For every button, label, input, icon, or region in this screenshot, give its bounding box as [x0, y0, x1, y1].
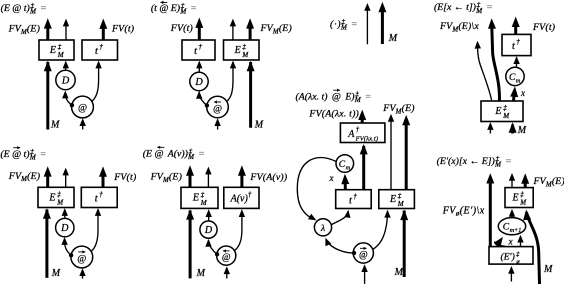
wire @ to E box d7	[372, 210, 390, 250]
circle @arrowright d5	[71, 246, 93, 268]
output arrow FV(t) thick d1	[99, 19, 107, 40]
svg-text:@: @	[222, 253, 231, 263]
label M d1	[50, 120, 60, 131]
output arrow FV_M(E) thick d2	[246, 18, 254, 40]
label M d5	[51, 268, 61, 279]
output arrow FV_M(E) thick d7	[402, 115, 410, 190]
svg-text:M: M	[517, 125, 527, 136]
input arrow into @ d7	[361, 264, 367, 284]
svg-text:E: E	[389, 194, 396, 205]
wire D to E box d6	[206, 209, 212, 221]
svg-text:E: E	[49, 45, 56, 56]
svg-text:FVM​(E)\x: FVM​(E)\x	[439, 21, 479, 33]
svg-text:M: M	[196, 268, 206, 279]
svg-text:FV(t): FV(t)	[532, 22, 555, 33]
svg-text:M: M	[394, 267, 404, 278]
svg-text:†: †	[99, 191, 103, 199]
junction dot and wire @ to D d6	[205, 239, 219, 257]
label FV(t) d4	[532, 22, 555, 33]
output arrow thin d6	[205, 167, 211, 188]
circle @ d1	[72, 96, 94, 118]
svg-text:†: †	[353, 192, 357, 200]
svg-text:‡: ‡	[503, 104, 507, 112]
input arrow into @ d2	[214, 118, 220, 129]
output arrow thin d2	[230, 19, 236, 40]
box A†FV(lambda x.t) d7	[340, 123, 385, 143]
svg-text:M: M	[502, 112, 510, 120]
svg-text:x: x	[508, 237, 514, 247]
label x d7	[329, 173, 334, 183]
svg-text:FV(t): FV(t)	[111, 23, 134, 34]
label M d2	[254, 120, 264, 131]
circle D d5	[56, 218, 74, 236]
svg-text:λ: λ	[320, 223, 325, 234]
svg-text:‡: ‡	[57, 190, 61, 198]
heading label (dot)ddagM =	[330, 18, 357, 32]
label FV(A(v)) d6	[249, 172, 287, 183]
output arrow FV_M(E) thick d1	[44, 18, 52, 40]
output arrow thin d1	[63, 19, 69, 40]
svg-text:D: D	[60, 223, 69, 234]
svg-text:‡: ‡	[242, 43, 246, 51]
heading label (E-prime(x)[x <- E])ddagM =	[437, 155, 512, 169]
svg-text:M: M	[388, 33, 398, 44]
wire thick S-curve FV_M(E)-x output d4	[488, 18, 499, 101]
label FV_M(E) d7	[382, 103, 414, 115]
label FV_M(E) d5	[8, 171, 40, 183]
circle D d2	[190, 72, 208, 90]
box (E-prime)‡oslash d8	[489, 247, 533, 266]
svg-text:M: M	[254, 120, 264, 131]
svg-text:(E[x ← t])‡M =: (E[x ← t])‡M =	[434, 1, 493, 15]
output arrow FV_M(E) thick d5	[44, 166, 52, 187]
junction dot and wire @ to D d2	[196, 91, 209, 108]
label FV_oslash(E-prime) minus x d8	[442, 205, 485, 217]
svg-text:M: M	[241, 51, 249, 59]
output arrow FV_M(E) thick d8	[521, 173, 529, 187]
svg-text:(E @ A(v))‡M =: (E @ A(v))‡M =	[143, 148, 205, 162]
svg-text:(E @ t)‡M =: (E @ t)‡M =	[1, 2, 47, 16]
wire x thick hook into Cm+1 d8	[494, 237, 505, 248]
label FV(A(lambda x. t)) d7	[308, 109, 359, 120]
svg-text:‡: ‡	[398, 192, 402, 200]
svg-text:†: †	[516, 38, 520, 46]
label FV_M(E) d6	[150, 172, 182, 184]
wire M curve into E box d8	[523, 210, 539, 284]
input arrow into @ d1	[80, 118, 86, 129]
svg-text:†: †	[198, 43, 202, 51]
svg-text:(E′): (E′)	[501, 252, 515, 263]
label FV_M(E) d2	[260, 23, 292, 35]
svg-text:M: M	[50, 120, 60, 131]
output arrow FV(t) thick d2	[195, 18, 203, 40]
label FV_M(E) minus x d4	[439, 21, 479, 33]
svg-text:@: @	[359, 250, 368, 260]
output arrow thin d5	[63, 168, 69, 188]
label x d4	[520, 88, 525, 98]
wire x thick t box to Cm d7	[341, 174, 349, 190]
label FV(t) d2	[170, 23, 193, 34]
wire M into E box d7	[400, 210, 408, 277]
heading label (E[x <- t])ddagM =	[434, 1, 493, 15]
svg-text:E: E	[192, 193, 199, 204]
box E‡M d7	[379, 190, 415, 209]
svg-text:‡: ‡	[520, 191, 524, 199]
wire M into E box d1	[44, 61, 52, 130]
output arrow FV_M(E) thick d6	[186, 165, 194, 187]
output arrow FV(A(v)) thick d6	[238, 165, 246, 187]
label FV_M(E) d8	[533, 176, 564, 188]
svg-text:(t @ E)‡M =: (t @ E)‡M =	[151, 2, 197, 16]
label M d4	[517, 125, 527, 136]
svg-text:E: E	[48, 192, 55, 203]
label FV(t) d1	[111, 23, 134, 34]
svg-text:M: M	[543, 264, 553, 275]
wire @ to A box d6	[234, 209, 245, 250]
wire lambda to t box d7	[332, 210, 351, 225]
svg-text:E: E	[512, 193, 519, 204]
output arrow FV(A) thick d7	[358, 110, 366, 123]
heading label (A(lambda x. t) @arrowright E)ddagM =	[296, 89, 372, 104]
label M d3	[388, 33, 398, 44]
svg-text:FV(A(λx. t)): FV(A(λx. t))	[308, 109, 359, 120]
input arrow into E-prime box d8	[508, 266, 514, 282]
svg-text:†: †	[99, 43, 103, 51]
wire @ to t box d1	[92, 61, 102, 102]
wire tall thick FV(E-prime) output d8	[486, 173, 494, 247]
heading label (E @arrowright t)ddagM =	[0, 146, 46, 162]
input arrow M into E box d4	[509, 122, 517, 133]
svg-text:M: M	[57, 51, 65, 59]
svg-text:@: @	[78, 103, 87, 114]
box E‡M d5	[38, 187, 74, 207]
wire D to t box d2	[196, 61, 202, 73]
svg-text:( · )‡M =: ( · )‡M =	[330, 18, 357, 32]
input arrow thin into E box d4	[487, 122, 493, 133]
svg-text:D: D	[194, 77, 203, 88]
circle Cm d7	[336, 155, 354, 173]
wire @ to E box d2	[227, 61, 237, 102]
box E‡M d6	[181, 187, 218, 208]
svg-text:FV(λx.t): FV(λx.t)	[355, 136, 379, 143]
circle Cm d4	[506, 67, 524, 85]
wire thick t box to A box d7	[360, 144, 368, 190]
svg-text:D: D	[61, 76, 70, 87]
svg-text:A: A	[347, 129, 355, 140]
svg-text:@: @	[77, 254, 86, 265]
svg-text:m: m	[346, 164, 351, 171]
svg-text:D: D	[204, 225, 213, 236]
box E‡M d1	[39, 40, 74, 60]
output arrow thin d8	[509, 173, 515, 188]
svg-text:FV(t): FV(t)	[113, 172, 136, 183]
label FV(t) d5	[113, 172, 136, 183]
svg-text:@: @	[213, 104, 222, 115]
svg-text:x: x	[329, 173, 334, 183]
svg-text:M: M	[200, 199, 208, 207]
svg-text:FV(t): FV(t)	[170, 23, 193, 34]
box E‡M d8	[505, 188, 533, 208]
input arrow into @ d5	[79, 268, 85, 278]
wire D to E box d1	[63, 61, 69, 72]
svg-text:x: x	[520, 88, 525, 98]
circle D d6	[200, 221, 217, 238]
box t† d7	[336, 190, 372, 209]
svg-text:M: M	[397, 200, 405, 208]
wire loop Cm to lambda d7	[297, 158, 336, 221]
svg-text:E: E	[234, 45, 241, 56]
wire Cm to t box d4	[513, 56, 519, 66]
svg-text:†: †	[248, 190, 252, 198]
box A(v)† d6	[224, 187, 259, 208]
circle @arrowleft d2	[207, 96, 229, 118]
svg-text:E: E	[494, 106, 501, 117]
svg-text:A(v): A(v)	[230, 193, 249, 204]
svg-text:†: †	[356, 126, 360, 134]
svg-text:m+1: m+1	[510, 227, 522, 234]
junction dot and wire @ to lambda d7	[325, 238, 356, 255]
wire M into E box d5	[43, 208, 51, 278]
heading label (t @arrowleft E)ddagM =	[151, 1, 197, 16]
wire thin curvy output d4	[475, 41, 492, 101]
box t† d1	[82, 40, 118, 60]
circle D d1	[56, 70, 75, 89]
wire @ to t box d5	[91, 208, 101, 252]
svg-text:‡: ‡	[201, 191, 205, 199]
output arrow FV(t) thick d4	[512, 17, 520, 35]
heading label (E @ t)ddagM =	[1, 2, 47, 16]
label M d7	[394, 267, 404, 278]
label M d8	[543, 264, 553, 275]
circle @arrowleft d6	[217, 246, 236, 265]
label FV_M(E) d1	[8, 24, 40, 36]
label M d6	[196, 268, 206, 279]
wire M into E box d2	[247, 61, 255, 128]
box t† d5	[81, 187, 117, 207]
output arrow thin tall d7	[388, 114, 394, 190]
ellipse Cm+1 d8	[498, 218, 525, 235]
box E‡M d2	[224, 40, 260, 60]
circle lambda d7	[314, 219, 331, 236]
wire M thick tall d3	[378, 2, 386, 44]
output arrow FV(t) thick d5	[99, 166, 107, 187]
wire x thick E box to Cm d4	[510, 86, 518, 101]
label x d8	[508, 237, 514, 247]
heading label (E @arrowleft A(v))ddagM =	[143, 146, 205, 162]
box t† d4	[502, 34, 531, 55]
wire thin tall d3	[364, 3, 370, 44]
svg-text:M: M	[519, 199, 527, 207]
svg-text:M: M	[51, 268, 61, 279]
box E‡M d4	[481, 101, 523, 122]
box t† d2	[182, 40, 215, 60]
svg-text:‡: ‡	[58, 43, 62, 51]
svg-text:FVø​(E′)\x: FVø​(E′)\x	[442, 205, 485, 217]
svg-text:M: M	[56, 198, 64, 206]
wire Cm+1 to E box d8	[509, 209, 515, 218]
junction dot and wire @ to D d5	[61, 237, 73, 257]
wire D to E box d5	[62, 208, 68, 219]
wire thin box to Cm+1 d8	[517, 235, 523, 247]
svg-text:FV(A(v)): FV(A(v))	[249, 172, 287, 183]
svg-text:m: m	[516, 77, 521, 84]
svg-text:(E @ t)‡M =: (E @ t)‡M =	[0, 148, 46, 162]
input arrow into @ d6	[224, 266, 230, 278]
circle @arrowright d7	[353, 243, 373, 263]
wire M into E box d6	[186, 209, 194, 278]
junction dot and wire @ to D d1	[62, 91, 74, 108]
